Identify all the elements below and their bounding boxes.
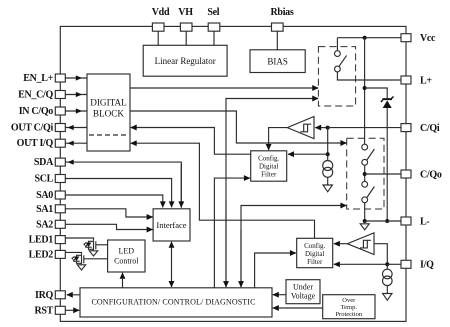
C/Qi comparator U2 bbox=[287, 117, 314, 139]
svg-text:Under: Under bbox=[293, 283, 313, 292]
svg-text:Voltage: Voltage bbox=[291, 292, 316, 301]
node chain to L- bbox=[363, 219, 367, 223]
node zener tap bbox=[363, 86, 367, 90]
node C/Qi junction bbox=[326, 126, 330, 130]
L- rail bbox=[365, 220, 401, 222]
svg-text:CONFIGURATION/ CONTROL/ DIAGNO: CONFIGURATION/ CONTROL/ DIAGNOSTIC bbox=[91, 298, 255, 307]
linear regulator U-REG bbox=[143, 45, 227, 76]
node I/Q junction bbox=[385, 262, 389, 266]
wire IN C/Qo to low-side switch bbox=[130, 111, 346, 143]
low-side switch dashed box bbox=[347, 138, 384, 209]
svg-text:Interface: Interface bbox=[156, 220, 186, 230]
left pin SA0 bbox=[36, 190, 65, 201]
left pin LED1 bbox=[29, 235, 66, 246]
svg-text:LED: LED bbox=[119, 247, 135, 256]
top pin VH bbox=[178, 7, 193, 45]
wire tap to filter1 right edge bbox=[288, 153, 328, 155]
top pin Sel bbox=[207, 7, 219, 45]
node zener to L- bbox=[385, 219, 389, 223]
left pin LED2 bbox=[29, 249, 66, 260]
wire SA0 to interface bbox=[65, 195, 163, 207]
svg-text:BLOCK: BLOCK bbox=[93, 109, 125, 119]
wire SCL to interface bbox=[65, 179, 171, 208]
wire SDA to interface bbox=[65, 162, 181, 208]
svg-text:RST: RST bbox=[34, 305, 53, 316]
left pin SA1 bbox=[36, 204, 65, 215]
svg-text:C/Qo: C/Qo bbox=[420, 169, 442, 180]
svg-text:OUT C/Qi: OUT C/Qi bbox=[11, 123, 54, 134]
svg-text:Config.: Config. bbox=[258, 155, 279, 163]
wire Vcc trunk down to low-side chain bbox=[364, 38, 366, 145]
right pin C/Qi bbox=[401, 123, 440, 134]
svg-text:Linear Regulator: Linear Regulator bbox=[155, 56, 216, 66]
right pin L+ bbox=[401, 75, 432, 86]
svg-text:Digital: Digital bbox=[305, 250, 324, 258]
wire ctrl1 digital block to high-side switch bbox=[130, 87, 318, 89]
wire SA2 to interface bbox=[65, 224, 152, 229]
zener diode D1 bbox=[381, 97, 394, 222]
svg-text:IRQ: IRQ bbox=[35, 290, 54, 301]
wire C/Qi to pin bbox=[328, 127, 401, 129]
top pin Vdd bbox=[152, 7, 170, 45]
svg-text:SCL: SCL bbox=[34, 174, 53, 185]
LED1 driver cluster Q1 bbox=[65, 238, 107, 256]
wire I/Q line to filter2 bbox=[334, 263, 387, 265]
svg-text:LED1: LED1 bbox=[29, 235, 54, 246]
wire I/Q to pin bbox=[387, 263, 401, 265]
right pin C/Qo bbox=[401, 169, 442, 180]
wire under voltage to config bbox=[273, 294, 286, 296]
high-side switch dashed box bbox=[318, 47, 355, 106]
wire filter2 to OUT I/Q bbox=[131, 143, 315, 238]
ground arrow at L- bbox=[360, 224, 369, 230]
svg-text:L-: L- bbox=[420, 216, 429, 227]
svg-text:DIGITAL: DIGITAL bbox=[90, 98, 127, 108]
wire filter1 to OUT C/Qi bbox=[131, 128, 251, 155]
node C/Qo tap bbox=[363, 172, 367, 176]
svg-text:OUT I/Q: OUT I/Q bbox=[17, 138, 54, 149]
over temp protection block bbox=[323, 295, 375, 319]
svg-text:EN_L+: EN_L+ bbox=[23, 73, 53, 84]
svg-text:SDA: SDA bbox=[34, 157, 54, 168]
right pin L- bbox=[401, 216, 429, 227]
left pin SCL bbox=[34, 174, 65, 185]
bias block bbox=[250, 50, 305, 73]
svg-text:SA0: SA0 bbox=[36, 190, 53, 201]
wire I/Q junction to comparator2 input bbox=[374, 244, 387, 265]
top pin Rbias bbox=[271, 7, 294, 50]
svg-text:Vcc: Vcc bbox=[420, 33, 436, 44]
wire C/Qo to pin bbox=[365, 173, 401, 175]
left pin OUT I/Q bbox=[17, 138, 87, 149]
current source I1 bbox=[323, 161, 333, 192]
node Vcc trunk junction bbox=[363, 36, 367, 40]
right pin I/Q bbox=[401, 260, 434, 271]
left pin IN C/Qo bbox=[19, 106, 87, 117]
wire SA1 to interface bbox=[65, 209, 152, 217]
svg-text:Vdd: Vdd bbox=[152, 7, 170, 18]
configuration control diagnostic block bbox=[80, 288, 272, 317]
svg-text:Protection: Protection bbox=[335, 311, 362, 318]
svg-text:Filter: Filter bbox=[261, 171, 277, 179]
left pin EN_C/Q bbox=[18, 90, 87, 101]
wire C/Qi line to comparator1 input bbox=[315, 127, 328, 129]
svg-text:VH: VH bbox=[178, 7, 193, 18]
I/Q comparator U3 bbox=[347, 233, 374, 255]
node filter1 tap bbox=[326, 152, 330, 156]
left pin RST bbox=[34, 305, 79, 316]
low-side switch chain S2 S3 bbox=[362, 144, 375, 221]
left pin EN_L+ bbox=[23, 73, 87, 84]
wire config trunk to high-side switch ctrl bbox=[226, 99, 318, 288]
wire C/Qi junction down bbox=[327, 128, 329, 161]
config digital filter 1 (C/Q) bbox=[251, 151, 287, 181]
svg-text:Digital: Digital bbox=[259, 163, 278, 171]
svg-text:SA2: SA2 bbox=[36, 219, 53, 230]
svg-text:IN C/Qo: IN C/Qo bbox=[19, 106, 54, 117]
digital block bbox=[87, 74, 130, 151]
config digital filter 2 (I/Q) bbox=[297, 238, 333, 267]
svg-text:BIAS: BIAS bbox=[267, 57, 288, 67]
high-side switch S1 bbox=[335, 38, 402, 80]
svg-text:EN_C/Q: EN_C/Q bbox=[18, 90, 53, 101]
wire to zener bbox=[365, 88, 388, 98]
wire comparator1 output to filter1 bbox=[269, 128, 288, 150]
svg-text:C/Qi: C/Qi bbox=[420, 123, 440, 134]
interface block bbox=[153, 209, 190, 241]
Vcc rail bbox=[337, 37, 401, 39]
svg-text:Control: Control bbox=[114, 257, 139, 266]
svg-text:L+: L+ bbox=[420, 75, 432, 86]
LED control block bbox=[108, 240, 145, 272]
svg-text:Temp.: Temp. bbox=[341, 304, 358, 311]
svg-text:I/Q: I/Q bbox=[420, 260, 434, 271]
svg-text:Over: Over bbox=[342, 297, 356, 304]
left pin SA2 bbox=[36, 219, 65, 230]
svg-text:Rbias: Rbias bbox=[271, 7, 294, 18]
current source I2 bbox=[383, 264, 393, 300]
left pin IRQ bbox=[35, 290, 80, 301]
under voltage block bbox=[286, 280, 320, 304]
svg-text:SA1: SA1 bbox=[36, 204, 53, 215]
chip boundary bbox=[60, 26, 406, 321]
wire config to LED control bbox=[122, 273, 124, 288]
LED2 driver cluster Q2 bbox=[65, 252, 107, 270]
svg-text:Config.: Config. bbox=[304, 242, 325, 250]
svg-text:LED2: LED2 bbox=[29, 249, 54, 260]
left pin SDA bbox=[34, 157, 65, 168]
wire config to filter1 ctrl bbox=[214, 178, 250, 288]
wire config trunk to low-side switch ctrl bbox=[241, 206, 346, 288]
left pin OUT C/Qi bbox=[11, 123, 87, 134]
svg-text:Filter: Filter bbox=[307, 258, 323, 266]
svg-text:Sel: Sel bbox=[207, 7, 219, 18]
wire config to filter2 ctrl bbox=[255, 253, 296, 288]
wire interface to config (bidirectional) bbox=[171, 242, 173, 287]
wire over temp to config bbox=[273, 307, 323, 309]
wire comparator2 output to filter2 bbox=[334, 243, 347, 245]
right pin Vcc bbox=[401, 33, 436, 44]
